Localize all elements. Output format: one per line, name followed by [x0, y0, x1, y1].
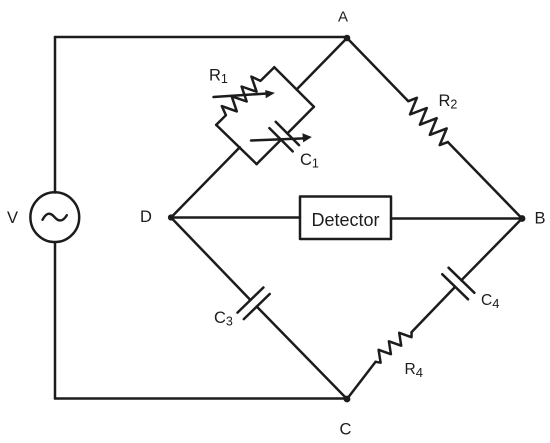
resistor R2	[408, 98, 448, 145]
wire: bottom horizontal to node C	[55, 397, 347, 400]
svg-text:Detector: Detector	[312, 210, 380, 230]
arrow through R1	[214, 94, 268, 98]
resistor R4	[376, 332, 412, 363]
R1C1 box upper-right side	[274, 67, 314, 107]
wire: left vertical upper (to V source)	[54, 37, 57, 193]
svg-text:B: B	[535, 210, 546, 228]
C3 plate 1	[238, 288, 264, 313]
svg-text:A: A	[338, 9, 348, 26]
capacitor C1 (variable) on lower-right side of box: wire stubs	[257, 107, 314, 164]
Detector box	[300, 197, 391, 240]
wire: C4 to R4	[412, 287, 456, 332]
svg-text:D: D	[140, 208, 152, 226]
wire: Detector to B	[391, 217, 522, 220]
wire: C3 to node C	[257, 307, 347, 400]
svg-text:R1: R1	[209, 67, 228, 87]
svg-text:C1: C1	[300, 151, 319, 171]
C4 plate 2	[442, 274, 468, 299]
resistor R1 (variable) on upper-left side of box	[216, 67, 274, 125]
svg-text:R4: R4	[405, 361, 423, 380]
svg-text:C4: C4	[481, 292, 499, 311]
node B junction dot	[519, 215, 526, 222]
wire: A to R2	[347, 38, 408, 101]
wire: D to R1C1 box (lower segment of D-A arm)	[171, 147, 240, 217]
C3 plate 2	[244, 294, 270, 319]
wire: R1C1 box to A (upper segment of D-A arm)	[297, 38, 347, 90]
svg-text:V: V	[7, 209, 18, 227]
source V (AC)	[30, 192, 79, 242]
wire: top horizontal from source branch to node A	[55, 36, 347, 39]
sine symbol inside V	[43, 214, 67, 221]
wire: D to C3	[171, 218, 251, 301]
C4 plate 1	[449, 268, 475, 293]
wire: left vertical lower	[54, 242, 57, 399]
arrowhead of C1 arrow	[302, 133, 311, 142]
arrowhead of R1 arrow	[265, 90, 275, 98]
R1C1 box lower-left side	[216, 125, 256, 164]
wire: R2 to node B	[448, 142, 522, 218]
node D junction dot	[168, 214, 174, 220]
svg-text:R2: R2	[439, 92, 458, 112]
node C junction dot	[344, 396, 351, 403]
svg-text:C3: C3	[214, 309, 233, 329]
arrow through C1	[251, 138, 304, 140]
C1 plate 1	[269, 128, 292, 151]
C1 plate 2	[276, 122, 299, 145]
node A junction dot	[344, 35, 351, 42]
wire: D to Detector	[171, 216, 300, 219]
svg-text:C: C	[340, 421, 352, 439]
wire: R4 to node C	[347, 362, 376, 399]
wire: B to C4	[461, 219, 522, 281]
